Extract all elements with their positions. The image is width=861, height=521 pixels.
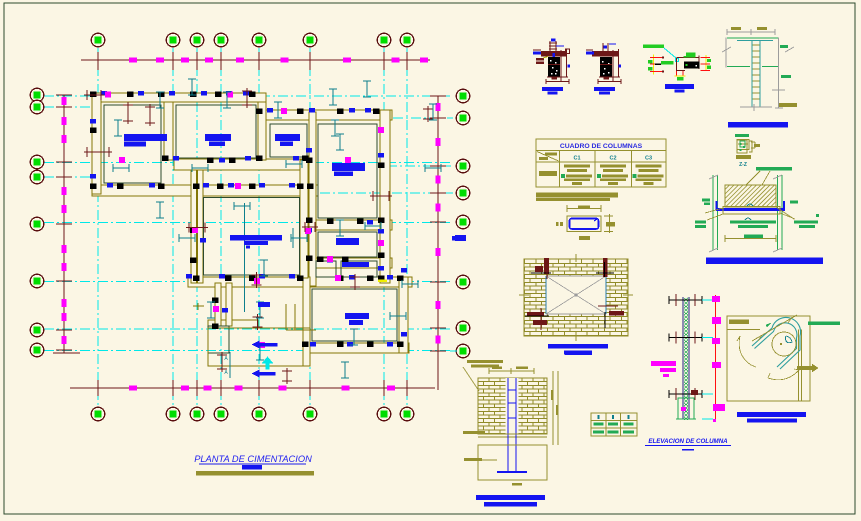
- svg-text:PLANTA DE CIMENTACION: PLANTA DE CIMENTACION: [194, 454, 312, 464]
- svg-text:Z-Z: Z-Z: [739, 162, 747, 168]
- svg-text:ELEVACION DE COLUMNA: ELEVACION DE COLUMNA: [648, 438, 728, 445]
- svg-text:C2: C2: [609, 156, 616, 162]
- svg-text:C1: C1: [573, 156, 580, 162]
- svg-text:C3: C3: [645, 156, 652, 162]
- svg-text:CUADRO DE COLUMNAS: CUADRO DE COLUMNAS: [560, 143, 643, 150]
